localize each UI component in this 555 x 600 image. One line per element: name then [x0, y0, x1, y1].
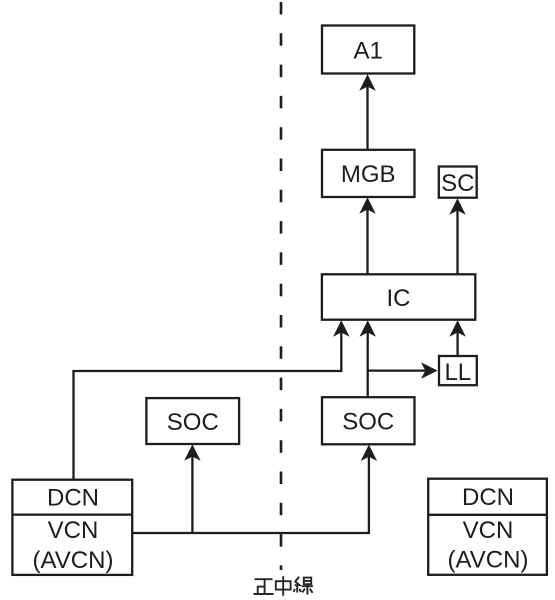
arrowhead contralateral into IC: [333, 320, 349, 337]
wire VCN left to SOC right: [132, 450, 369, 533]
svg-text:DCN: DCN: [462, 484, 514, 511]
wire IC to SC: [456, 204, 458, 274]
box DCN/VCN left: [12, 480, 132, 575]
svg-text:DCN: DCN: [47, 484, 99, 511]
arrowhead LL into IC: [449, 320, 465, 337]
svg-text:(AVCN): (AVCN): [33, 547, 114, 574]
wire IC to MGB: [366, 203, 368, 274]
svg-text:SOC: SOC: [167, 409, 219, 436]
box SOC left: [146, 398, 239, 444]
wire branch to SOC left: [191, 450, 193, 533]
svg-text:MGB: MGB: [341, 161, 396, 188]
wire DCN left to IC (contralateral): [74, 326, 342, 480]
kanji SEN (line): [294, 577, 313, 595]
svg-text:LL: LL: [444, 359, 471, 386]
divider DCN/VCN left: [12, 513, 132, 515]
svg-text:VCN: VCN: [463, 517, 514, 544]
wire SOC right to IC: [367, 326, 369, 397]
divider DCN/VCN right: [428, 514, 547, 516]
arrowhead into SC: [449, 198, 465, 215]
midline (dashed vertical): [280, 2, 283, 570]
svg-text:SOC: SOC: [342, 409, 394, 436]
box MGB: [322, 150, 415, 197]
arrowhead into MGB: [359, 197, 375, 214]
arrowhead SOC right into IC: [360, 320, 376, 337]
box LL: [439, 356, 477, 385]
svg-text:IC: IC: [387, 285, 411, 312]
kanji CHUU (middle): [276, 576, 291, 596]
wire LL to IC: [456, 326, 458, 356]
box DCN/VCN right: [428, 479, 547, 575]
arrowhead into SOC left: [184, 444, 200, 461]
box A1: [322, 26, 414, 74]
svg-text:VCN: VCN: [48, 517, 99, 544]
wire branch to LL: [368, 369, 431, 371]
arrowhead into SOC right: [361, 445, 377, 462]
arrowhead into LL: [421, 362, 438, 378]
box SC: [439, 167, 477, 198]
svg-text:(AVCN): (AVCN): [448, 547, 529, 574]
wire MGB to A1: [366, 80, 368, 150]
kanji SEI (correct): [254, 578, 274, 594]
label midline text (hand-drawn kanji 正中線): [254, 576, 314, 596]
arrowhead into A1: [359, 74, 375, 91]
svg-text:SC: SC: [441, 170, 474, 197]
box IC: [322, 274, 475, 319]
box SOC right: [322, 397, 415, 444]
svg-text:A1: A1: [354, 37, 383, 64]
